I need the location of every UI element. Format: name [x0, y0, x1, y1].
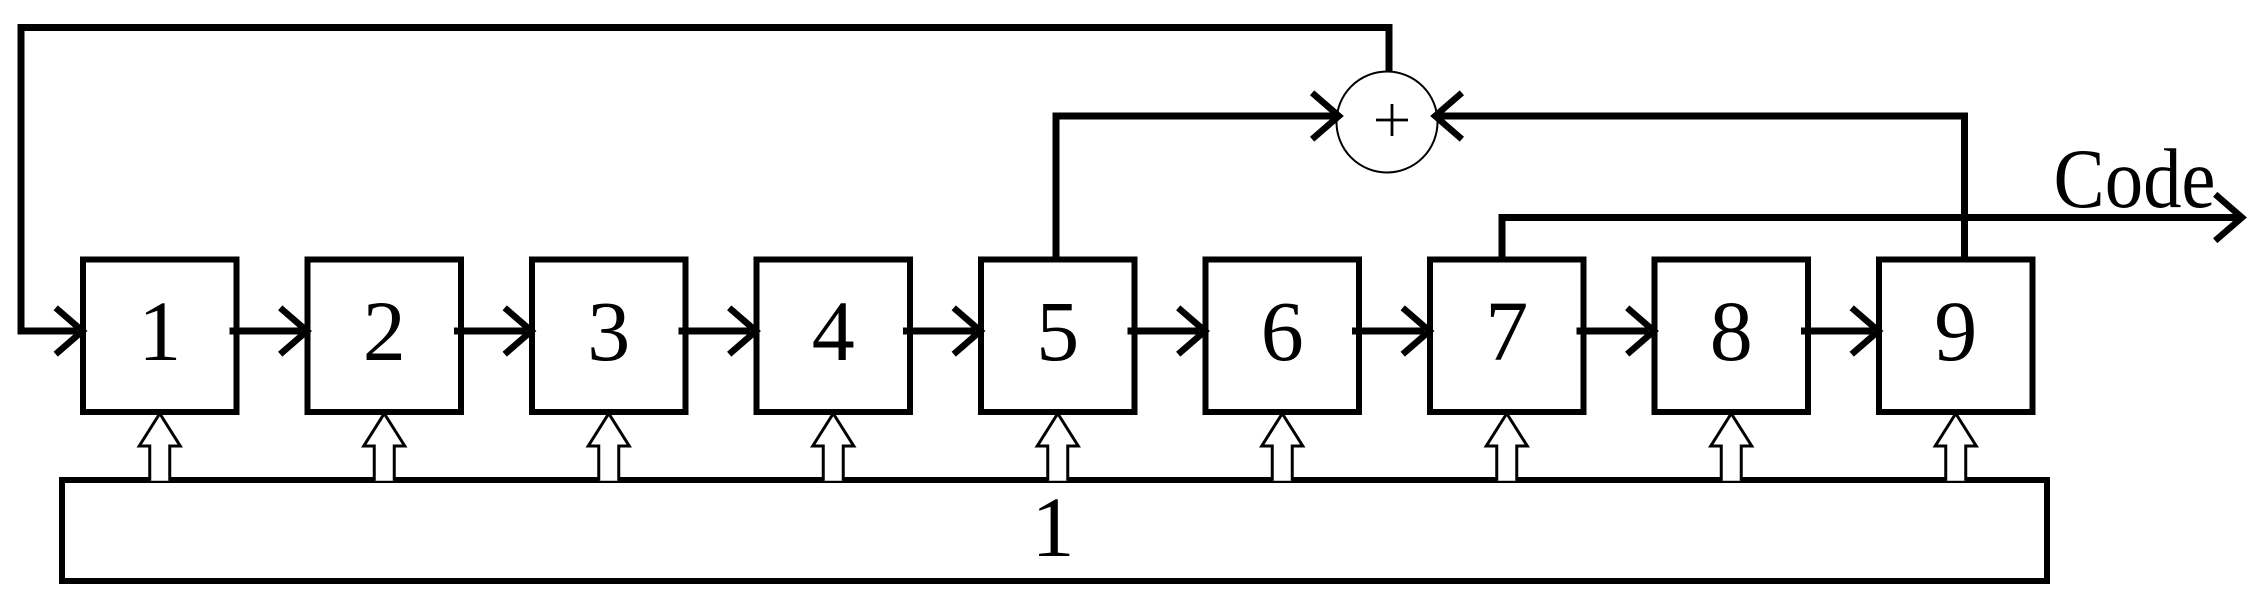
svg-text:3: 3: [587, 283, 630, 379]
wire register 7 to register 8: [1577, 328, 1649, 335]
wire from register 9 top to adder right input: [1440, 116, 1964, 259]
svg-text:1: 1: [1032, 479, 1075, 575]
clock arrow into register 3 (hollow up arrow): [588, 414, 629, 481]
arrowhead into adder left: [1312, 93, 1339, 139]
register box 8: [1655, 260, 1809, 413]
wire register 3 to register 4: [679, 328, 751, 335]
arrowhead into register 7: [1403, 308, 1430, 354]
svg-text:2: 2: [363, 283, 406, 379]
clock arrow into register 2 (hollow up arrow): [364, 414, 405, 481]
register box 4: [757, 260, 911, 413]
wire feedback top: adder output up, across top, down left side to register 1: [21, 28, 1389, 332]
register box 1: [83, 260, 237, 413]
svg-text:7: 7: [1485, 283, 1528, 379]
adder U1 (modulo-2 sum circle): [1337, 72, 1438, 173]
clock arrow into register 1 (hollow up arrow): [139, 414, 180, 481]
svg-text:6: 6: [1261, 283, 1304, 379]
clock arrow into register 4 (hollow up arrow): [813, 414, 854, 481]
wire Code output from register 7 top: [1502, 218, 2237, 259]
register box 5: [981, 260, 1135, 413]
svg-text:Code: Code: [2054, 132, 2216, 226]
clock arrow into register 6 (hollow up arrow): [1262, 414, 1303, 481]
svg-text:1: 1: [138, 283, 181, 379]
wire register 2 to register 3: [454, 328, 526, 335]
arrowhead into register 1: [56, 308, 83, 354]
wire register 5 to register 6: [1128, 328, 1200, 335]
clock arrow into register 5 (hollow up arrow): [1037, 414, 1078, 481]
wire register 1 to register 2: [230, 328, 302, 335]
register box 3: [532, 260, 686, 413]
arrowhead Code output: [2215, 194, 2242, 240]
arrowhead into register 4: [729, 308, 756, 354]
clock box 1 (bottom bar): [62, 480, 2047, 581]
plus sign of adder: [1376, 104, 1408, 136]
wire register 8 to register 9: [1801, 328, 1873, 335]
svg-text:5: 5: [1036, 283, 1079, 379]
clock arrow into register 8 (hollow up arrow): [1711, 414, 1752, 481]
wire tap from register 5 top to adder left input: [1056, 116, 1334, 259]
register box 2: [308, 260, 462, 413]
clock arrow into register 7 (hollow up arrow): [1486, 414, 1527, 481]
svg-text:4: 4: [812, 283, 855, 379]
arrowhead into register 5: [954, 308, 981, 354]
arrowhead into register 9: [1852, 308, 1879, 354]
svg-text:9: 9: [1934, 283, 1977, 379]
register box 9: [1879, 260, 2033, 413]
arrowhead into register 6: [1178, 308, 1205, 354]
arrowhead into adder right: [1435, 93, 1462, 139]
svg-text:8: 8: [1710, 283, 1753, 379]
register box 6: [1206, 260, 1360, 413]
wire register 4 to register 5: [903, 328, 975, 335]
wire register 6 to register 7: [1352, 328, 1424, 335]
arrowhead into register 8: [1627, 308, 1654, 354]
register box 7: [1430, 260, 1584, 413]
clock arrow into register 9 (hollow up arrow): [1935, 414, 1976, 481]
arrowhead into register 2: [280, 308, 307, 354]
arrowhead into register 3: [505, 308, 532, 354]
